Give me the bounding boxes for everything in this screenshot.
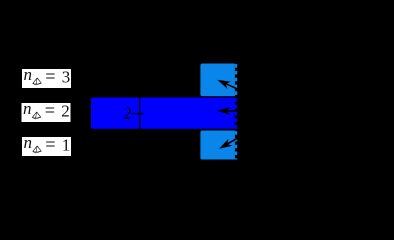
svg-text:n: n bbox=[23, 99, 32, 118]
block row3 (top light blue block) bbox=[200, 64, 237, 97]
svg-text:n: n bbox=[24, 133, 33, 152]
svg-text:2: 2 bbox=[61, 102, 69, 121]
block row1 (bottom light blue block) bbox=[200, 131, 237, 160]
label n_tetra = 3 bbox=[22, 65, 71, 88]
annotation 2 with tick bbox=[124, 104, 145, 123]
arrow middle bbox=[217, 107, 238, 115]
arrow top bbox=[217, 80, 238, 90]
svg-text:=: = bbox=[45, 102, 55, 122]
svg-text:=: = bbox=[45, 68, 55, 88]
bar row2 (horizontal dark blue bar merged with middle block) bbox=[91, 98, 237, 129]
arrow bottom bbox=[219, 138, 239, 149]
svg-text:3: 3 bbox=[62, 68, 70, 87]
label n_tetra = 2 bbox=[22, 99, 71, 122]
svg-text:=: = bbox=[45, 136, 55, 156]
svg-text:n: n bbox=[24, 65, 33, 84]
svg-text:2: 2 bbox=[124, 104, 133, 123]
svg-text:1: 1 bbox=[62, 136, 70, 155]
divider line on bar bbox=[139, 98, 140, 129]
label n_tetra = 1 bbox=[22, 133, 71, 156]
